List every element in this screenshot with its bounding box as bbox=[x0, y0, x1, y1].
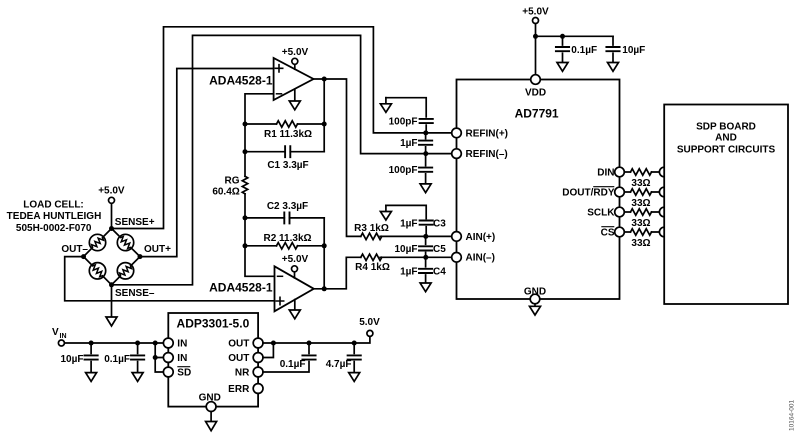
node 0.1uF VIN bbox=[135, 341, 140, 346]
svg-text:33Ω: 33Ω bbox=[631, 198, 650, 209]
svg-text:REFIN(–): REFIN(–) bbox=[466, 149, 508, 160]
node U2 output bbox=[322, 286, 327, 291]
load cell bridge element top-right bbox=[117, 234, 133, 250]
svg-text:DIN: DIN bbox=[597, 167, 614, 178]
load cell bridge element top-left bbox=[89, 234, 105, 250]
pin AIN(-) bbox=[452, 252, 462, 262]
SDP board block bbox=[664, 105, 788, 305]
wire C2 row bbox=[245, 217, 324, 219]
capacitor C2 bbox=[284, 212, 289, 223]
ground below 4.7uF bbox=[349, 373, 360, 382]
svg-text:10µF: 10µF bbox=[61, 354, 84, 365]
svg-text:IN: IN bbox=[177, 338, 187, 349]
svg-text:AIN(+): AIN(+) bbox=[466, 232, 496, 243]
svg-text:VDD: VDD bbox=[525, 87, 546, 98]
svg-text:SENSE–: SENSE– bbox=[115, 288, 155, 299]
svg-text:ERR: ERR bbox=[228, 384, 250, 395]
svg-text:SENSE+: SENSE+ bbox=[115, 217, 155, 228]
capacitor 10uF (VDD) bbox=[606, 36, 619, 62]
capacitor 0.1uF (VDD) bbox=[556, 36, 569, 62]
svg-text:R2 11.3kΩ: R2 11.3kΩ bbox=[263, 233, 311, 244]
svg-text:ADP3301-5.0: ADP3301-5.0 bbox=[177, 316, 250, 330]
svg-text:33Ω: 33Ω bbox=[631, 178, 650, 189]
svg-text:4.7µF: 4.7µF bbox=[326, 359, 352, 370]
ground below 0.1uF VIN bbox=[132, 373, 143, 382]
wire OUT+ to U1 noninverting input bbox=[140, 69, 274, 257]
wire C3 to AIN(+) node bbox=[425, 227, 427, 237]
svg-text:33Ω: 33Ω bbox=[631, 218, 650, 229]
svg-text:AIN(–): AIN(–) bbox=[466, 253, 495, 264]
svg-text:0.1µF: 0.1µF bbox=[571, 45, 597, 56]
op-amp U2 ADA4528-1 (bottom) bbox=[275, 266, 314, 311]
node OUT2 rail bbox=[271, 341, 276, 346]
svg-text:ADA4528-1: ADA4528-1 bbox=[209, 280, 273, 294]
VIN terminal bbox=[58, 340, 163, 346]
svg-text:GND: GND bbox=[199, 393, 221, 404]
node R1 left bbox=[243, 122, 248, 127]
svg-text:5.0V: 5.0V bbox=[359, 317, 380, 328]
node SENSE- bbox=[109, 282, 114, 287]
capacitor 0.1uF (NR) bbox=[263, 343, 316, 372]
svg-text:33Ω: 33Ω bbox=[631, 238, 650, 249]
svg-text:C4: C4 bbox=[433, 266, 446, 277]
svg-text:10µF: 10µF bbox=[622, 45, 645, 56]
svg-text:505H-0002-F070: 505H-0002-F070 bbox=[16, 223, 92, 234]
wire C1 row bbox=[245, 151, 324, 153]
svg-text:SCLK: SCLK bbox=[587, 207, 615, 218]
wire R2 row bbox=[245, 245, 324, 247]
pin ERR bbox=[253, 384, 263, 394]
ADP3301-5.0 block bbox=[168, 313, 258, 407]
wire feedback right vertical lower bbox=[323, 218, 325, 289]
load cell bridge edges bbox=[84, 229, 141, 285]
wire U2 output to R4 bbox=[314, 257, 452, 289]
svg-text:60.4Ω: 60.4Ω bbox=[212, 187, 239, 198]
svg-text:LOAD CELL:: LOAD CELL: bbox=[23, 200, 84, 211]
AIN ground flag bbox=[380, 205, 391, 220]
svg-text:C1 3.3µF: C1 3.3µF bbox=[267, 160, 308, 171]
svg-text:AND: AND bbox=[715, 133, 737, 144]
U2 ground bbox=[289, 300, 300, 319]
AD7791 block bbox=[457, 80, 620, 300]
svg-text:CS: CS bbox=[601, 227, 615, 238]
ground below 0.1uF VDD bbox=[557, 63, 568, 72]
svg-text:0.1µF: 0.1µF bbox=[280, 359, 306, 370]
svg-text:OUT+: OUT+ bbox=[144, 244, 171, 255]
wire OUT2 jog bbox=[263, 343, 273, 358]
svg-text:GND: GND bbox=[524, 286, 546, 297]
svg-text:R3 1kΩ: R3 1kΩ bbox=[354, 223, 389, 234]
svg-text:1µF: 1µF bbox=[400, 138, 417, 149]
svg-text:1µF: 1µF bbox=[400, 218, 417, 229]
node VDD rail bbox=[533, 34, 538, 39]
svg-text:C3: C3 bbox=[433, 218, 446, 229]
5.0V terminal bbox=[367, 330, 373, 336]
svg-text:SDP BOARD: SDP BOARD bbox=[696, 121, 756, 132]
net DOUT/RDY with 33ohm resistor bbox=[615, 187, 669, 197]
svg-text:IN: IN bbox=[60, 333, 67, 340]
svg-text:+5.0V: +5.0V bbox=[98, 185, 125, 196]
resistor R4 bbox=[361, 254, 382, 260]
wire R1 row bbox=[245, 123, 324, 125]
ground below C4 bbox=[420, 283, 431, 292]
+5.0V terminal at load cell bbox=[109, 197, 115, 228]
net DIN with 33ohm resistor bbox=[615, 167, 669, 177]
svg-text:+5.0V: +5.0V bbox=[282, 47, 309, 58]
node SENSE+ bbox=[109, 226, 114, 231]
wire U1 inverting input feedback chain bbox=[245, 94, 275, 276]
U1 +5.0V power terminal bbox=[292, 58, 298, 69]
pin VDD bbox=[531, 75, 541, 85]
pin GND AD7791 bbox=[530, 294, 540, 304]
capacitor 4.7uF (OUT) bbox=[348, 343, 361, 373]
wire OUT rail to 5.0V terminal bbox=[263, 336, 370, 343]
svg-text:TEDEA HUNTLEIGH: TEDEA HUNTLEIGH bbox=[7, 211, 102, 222]
svg-text:C2 3.3µF: C2 3.3µF bbox=[267, 201, 308, 212]
node OUT- bbox=[81, 254, 86, 259]
pin IN2 bbox=[163, 353, 173, 363]
capacitor 0.1uF (VIN) bbox=[131, 343, 144, 373]
wire VDD rail to decoupling caps bbox=[536, 35, 614, 37]
capacitor 100pF lower bbox=[419, 154, 432, 184]
+5.0V terminal VDD rail bbox=[533, 18, 539, 75]
svg-text:R4 1kΩ: R4 1kΩ bbox=[355, 262, 390, 273]
pin GND ADP3301 bbox=[206, 402, 216, 412]
svg-text:R1 11.3kΩ: R1 11.3kΩ bbox=[264, 129, 312, 140]
svg-text:C5: C5 bbox=[433, 244, 446, 255]
resistor R2 bbox=[277, 243, 298, 249]
ground at load cell SENSE- bbox=[106, 285, 117, 326]
node AIN(+) bbox=[423, 234, 428, 239]
node REFIN(+) bbox=[423, 130, 428, 135]
node R2 right bbox=[322, 243, 327, 248]
capacitor 10uF (VIN) bbox=[85, 343, 98, 373]
svg-text:OUT: OUT bbox=[228, 338, 249, 349]
svg-text:SUPPORT CIRCUITS: SUPPORT CIRCUITS bbox=[677, 144, 776, 155]
svg-text:+5.0V: +5.0V bbox=[522, 6, 549, 17]
node 10uF VIN bbox=[89, 341, 94, 346]
svg-text:100pF: 100pF bbox=[389, 165, 418, 176]
pin REFIN(-) bbox=[452, 149, 462, 159]
node R1 right bbox=[322, 122, 327, 127]
pin OUT1 bbox=[253, 338, 263, 348]
svg-text:DOUT/RDY: DOUT/RDY bbox=[562, 187, 615, 198]
svg-text:RG: RG bbox=[225, 176, 240, 187]
svg-text:OUT: OUT bbox=[228, 353, 249, 364]
wire REFIN gnd to 100pF bbox=[386, 98, 426, 117]
resistor RG bbox=[242, 176, 247, 193]
pin NR bbox=[253, 367, 263, 377]
op-amp U1 ADA4528-1 (top) bbox=[274, 58, 314, 100]
svg-text:NR: NR bbox=[235, 367, 250, 378]
pin OUT2 bbox=[253, 353, 263, 363]
wire 100pF to REFIN(+) node bbox=[425, 125, 427, 133]
pin AIN(+) bbox=[452, 232, 462, 242]
capacitor C3 1uF bbox=[420, 221, 433, 225]
node OUT+ bbox=[138, 254, 143, 259]
capacitor 1uF (REFIN) bbox=[419, 133, 432, 154]
svg-text:10164-001: 10164-001 bbox=[789, 400, 796, 431]
ground below AD7791 bbox=[530, 304, 541, 315]
capacitor 100pF upper bbox=[420, 119, 433, 123]
capacitor C5 10uF bbox=[419, 236, 432, 257]
U1 ground bbox=[289, 90, 300, 110]
node C2 left bbox=[243, 215, 248, 220]
svg-text:V: V bbox=[52, 327, 59, 338]
svg-text:+5.0V: +5.0V bbox=[282, 254, 309, 265]
net CS with 33ohm resistor bbox=[615, 227, 669, 237]
ground below 10uF VDD bbox=[608, 63, 619, 72]
ground below lower 100pF bbox=[420, 184, 431, 193]
pin SD bbox=[163, 367, 173, 377]
node IN jog top bbox=[153, 341, 158, 346]
node NR cap rail bbox=[307, 341, 312, 346]
node U1 output bbox=[322, 77, 327, 82]
svg-text:0.1µF: 0.1µF bbox=[104, 354, 130, 365]
net SCLK with 33ohm resistor bbox=[615, 207, 669, 217]
node R2 left bbox=[243, 243, 248, 248]
svg-text:SD: SD bbox=[177, 367, 191, 378]
svg-text:AD7791: AD7791 bbox=[515, 106, 559, 120]
wire SENSE+ to REFIN(+) bbox=[112, 27, 452, 229]
REFIN ground flag bbox=[380, 98, 391, 113]
capacitor C1 bbox=[285, 146, 290, 157]
svg-text:REFIN(+): REFIN(+) bbox=[466, 128, 509, 139]
load cell bridge element bottom-right bbox=[117, 263, 133, 279]
svg-text:IN: IN bbox=[177, 353, 187, 364]
load cell bridge element bottom-left bbox=[89, 263, 105, 279]
node REFIN(-) bbox=[423, 151, 428, 156]
wire U1 output to R3 bbox=[314, 79, 452, 236]
node 0.1uF VDD bbox=[560, 34, 565, 39]
svg-text:1µF: 1µF bbox=[400, 266, 417, 277]
wire feedback right vertical upper bbox=[323, 79, 325, 152]
ground below 10uF VIN bbox=[86, 373, 97, 382]
wire SENSE- to REFIN(-) bbox=[112, 35, 452, 284]
node 4.7uF rail bbox=[352, 341, 357, 346]
resistor R1 bbox=[277, 121, 298, 127]
node C1 left bbox=[243, 149, 248, 154]
wire AIN gnd to C3 bbox=[386, 205, 426, 218]
svg-text:10µF: 10µF bbox=[395, 244, 418, 255]
node AIN(-) bbox=[423, 255, 428, 260]
pin REFIN(+) bbox=[452, 128, 462, 138]
U2 +5.0V power terminal bbox=[292, 266, 298, 278]
svg-text:ADA4528-1: ADA4528-1 bbox=[209, 74, 273, 88]
capacitor C4 1uF bbox=[419, 257, 432, 283]
ground below ADP3301 bbox=[206, 412, 217, 431]
svg-text:OUT–: OUT– bbox=[61, 244, 88, 255]
wire IN2 and SD jog bbox=[155, 343, 163, 372]
svg-text:100pF: 100pF bbox=[389, 117, 418, 128]
pin IN1 bbox=[163, 338, 173, 348]
resistor R3 bbox=[361, 233, 382, 239]
node IN jog mid bbox=[153, 355, 158, 360]
wire OUT- to U2 noninverting input bbox=[65, 257, 275, 301]
